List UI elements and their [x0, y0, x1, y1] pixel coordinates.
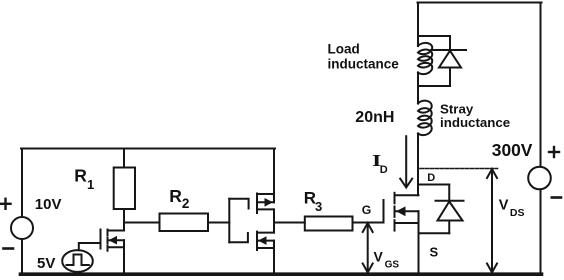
svg-text:inductance: inductance [440, 115, 510, 130]
svg-text:GS: GS [385, 260, 400, 271]
svg-text:10V: 10V [35, 196, 62, 213]
svg-text:DS: DS [510, 207, 525, 219]
resistor R2 [160, 214, 209, 232]
V1 plus sign [1, 199, 11, 209]
wire: L2 to Q4 drain [417, 134, 419, 196]
transistor Q3 (driver N-MOSFET) [257, 232, 274, 250]
wire: driver gate bus [229, 199, 248, 243]
svg-text:D: D [380, 164, 388, 176]
V3 plus sign [549, 147, 559, 157]
svg-text:20nH: 20nH [355, 109, 394, 126]
svg-text:1: 1 [87, 177, 94, 192]
node: drain potential dashed line [420, 168, 498, 170]
wire: R3 to power gate [353, 200, 384, 223]
arrow: ID current [400, 136, 412, 187]
wire: Q4 source to ground [418, 211, 420, 273]
wire: right rail lower [540, 189, 542, 273]
source V3 300V [528, 167, 551, 190]
V1 minus sign [4, 247, 14, 250]
svg-text:S: S [430, 245, 439, 260]
wire: drain branch upper [417, 3, 419, 47]
arrow: VDS measure [487, 169, 497, 273]
svg-text:V: V [499, 197, 509, 213]
transistor Q4 (power MOSFET) [395, 193, 419, 231]
wire: output node to R3 [274, 222, 305, 224]
svg-text:Load: Load [328, 42, 360, 57]
arrow: VGS measure [363, 223, 373, 273]
svg-text:300V: 300V [492, 140, 533, 160]
wire: Q1 gate lead [79, 243, 101, 250]
wire: node to R2 [124, 222, 160, 224]
svg-text:R: R [74, 166, 87, 186]
inductor L1 (load inductance) [418, 43, 432, 74]
wire: R2 to driver gates [208, 222, 229, 224]
wire: left rail lower (10V - to ground) [21, 239, 23, 273]
wire: between L1 and L2 [417, 73, 419, 104]
resistor R1 [114, 168, 135, 210]
wire: right rail upper [540, 3, 542, 167]
wire: ground rail (bottom) [21, 272, 542, 276]
source V1 10V [11, 217, 33, 239]
wire: driver rail mid segment (output node) [273, 209, 275, 232]
wire: driver rail bottom segment [273, 241, 275, 273]
V3 minus sign [552, 196, 561, 199]
inductor L2 (stray inductance 20nH) [418, 101, 432, 135]
diode D1 (freewheel) loop [418, 36, 466, 86]
svg-text:G: G [362, 203, 371, 217]
svg-text:V: V [374, 248, 384, 264]
wire: left rail upper (10V + to top) [21, 149, 23, 218]
wire: top rail of driver loop [21, 148, 275, 150]
svg-text:D: D [427, 172, 435, 184]
transistor Q1 (small N-MOSFET) [101, 230, 125, 251]
wire: driver rail top segment [273, 149, 275, 203]
wire: R1 top lead [123, 149, 125, 168]
svg-text:2: 2 [182, 196, 190, 211]
svg-text:R: R [169, 186, 182, 206]
resistor R3 [305, 217, 353, 231]
svg-text:5V: 5V [37, 255, 55, 272]
diode D2 (body diode) [419, 185, 464, 234]
wire: R1 bottom lead / Q1 drain node [123, 209, 125, 231]
source V2 5V pulse [62, 250, 93, 272]
wire: Q1 source to ground [123, 240, 125, 273]
transistor Q2 (driver P-MOSFET) [257, 194, 274, 214]
svg-text:3: 3 [315, 199, 322, 214]
svg-text:inductance: inductance [328, 56, 400, 71]
wire: top rail [418, 2, 542, 4]
